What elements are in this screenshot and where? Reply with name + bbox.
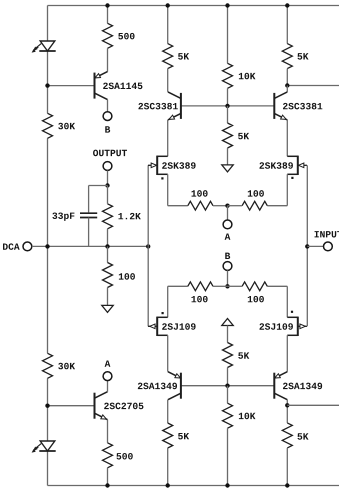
junction DCA/1.2K bottom — [105, 244, 109, 248]
label 2SC3381 left — [138, 103, 177, 110]
label INPUT — [315, 231, 339, 237]
terminal OUTPUT — [103, 162, 112, 171]
resistor R 5K (middle upper) — [223, 123, 233, 148]
wire output 100 to arrow — [107, 288, 109, 306]
transistor Q3b 2SA1349 (right) PNP — [274, 372, 287, 400]
LED D2 — [32, 441, 56, 452]
junction top rail 10K — [225, 3, 229, 7]
resistor R 100 (lower left) — [188, 282, 213, 291]
label 5K middle-lower — [238, 352, 249, 358]
wire 100 UR lead — [267, 205, 287, 207]
label 5K upper-left — [178, 53, 189, 59]
wire 100 UL to node A — [213, 205, 228, 207]
transistor Q1 2SA1145 PNP — [95, 72, 108, 100]
wire cap bottom — [88, 218, 90, 247]
junction collector node (bottom right) — [285, 403, 289, 407]
junction left rail / Q4 base — [45, 404, 49, 408]
capacitor C1 33pF — [80, 213, 97, 217]
jfet J2 2SK389 (right) — [287, 156, 307, 175]
wire node A to terminal — [227, 206, 229, 220]
wire node to right edge (bottom) — [287, 404, 339, 406]
label 2SA1349 right — [283, 383, 322, 390]
wire 100 LL to node B — [213, 285, 228, 287]
jfet J4 2SJ109 (right) — [287, 317, 307, 336]
label DCA — [3, 243, 20, 250]
junction DCA/left rail — [45, 244, 49, 248]
LED D1 — [32, 41, 56, 52]
resistor R 10K (lower) — [223, 403, 233, 428]
wire mid 5K to base line — [227, 368, 229, 386]
terminal INPUT — [324, 242, 333, 251]
wire 5K UR to node — [286, 69, 288, 86]
power arrow up (mid lower) — [222, 319, 233, 326]
wire mid 5K upper lead — [227, 106, 229, 123]
label 5K lower-right — [297, 433, 308, 439]
wire OUTPUT to node — [107, 170, 109, 185]
power arrow down (mid upper) — [222, 165, 233, 172]
resistor R 5K (upper right) — [282, 44, 292, 69]
wire 100 LR lead — [267, 285, 287, 287]
wire Q3L collector down — [167, 400, 169, 423]
resistor R 10K (upper) — [223, 63, 233, 88]
transistor Q2 2SC3381 (left) NPN — [168, 92, 181, 120]
wire 100 UR to node A — [228, 205, 243, 207]
transistor Q3 2SA1349 (left) PNP — [168, 372, 181, 400]
wire mid 5K lower lead — [227, 326, 229, 343]
wire J1 source down — [167, 174, 169, 205]
label A mid — [225, 233, 231, 239]
wire input stub — [307, 245, 323, 247]
marker dot J4 — [291, 311, 293, 313]
junction top rail 5K right — [285, 3, 289, 7]
label 2SK389 left — [162, 162, 195, 169]
wire Q3R collector down — [286, 400, 288, 423]
label 5K upper-right — [297, 53, 308, 59]
resistor R 100 (output) — [103, 263, 113, 288]
junction bottom rail 5K right — [285, 483, 289, 487]
label 2SJ109 left — [162, 323, 195, 330]
marker dot J3 — [162, 312, 164, 314]
junction input node — [305, 244, 309, 248]
junction bottom rail 500 — [105, 483, 109, 487]
wire Q4 base from left rail — [48, 405, 95, 407]
junction left rail / Q1 base — [45, 83, 49, 87]
resistor R 5K (middle lower) — [223, 343, 233, 368]
marker dot J2 — [291, 177, 293, 179]
label 1.2K — [118, 213, 140, 219]
label 2SK389 right — [260, 162, 293, 169]
label 2SJ109 right — [260, 323, 293, 330]
wire Q2L emitter down to J1 drain — [167, 120, 169, 156]
label OUTPUT — [93, 150, 127, 157]
junction DCA/gate line — [146, 244, 150, 248]
wire Q4 collector to terminal A — [107, 380, 109, 391]
label 10K upper — [239, 73, 256, 80]
wire bottom supply rail — [48, 485, 339, 487]
label 5K middle-upper — [238, 133, 249, 139]
label 2SA1349 left — [138, 383, 177, 390]
wire J4 source up — [286, 286, 288, 317]
wire Q1 base from left rail — [48, 85, 95, 87]
label 2SC2705 — [104, 403, 143, 410]
label 100 output — [119, 273, 135, 280]
wire top supply rail — [48, 5, 339, 7]
wire 5K UR top lead — [286, 6, 288, 44]
wire 5K LL to rail — [167, 448, 169, 486]
wire 100 UL lead — [168, 205, 188, 207]
resistor R 5K (upper left) — [163, 44, 173, 69]
wire left gate line — [147, 165, 149, 326]
wire Q3 base line — [181, 385, 274, 387]
junction node B — [225, 284, 229, 288]
transistor Q4 2SC2705 NPN — [95, 392, 108, 420]
resistor R 5K (lower left) — [163, 423, 173, 448]
junction bottom rail 10K — [225, 483, 229, 487]
terminal DCA — [23, 242, 32, 251]
resistor R 30K (lower) — [43, 353, 53, 378]
terminal B (top) — [103, 112, 112, 121]
terminal A (bottom) — [103, 372, 112, 381]
jfet J1 2SK389 (left) — [148, 156, 168, 175]
wire output 100 lead — [107, 246, 109, 262]
junction top rail 500 — [105, 3, 109, 7]
label 5K lower-left — [178, 433, 189, 439]
resistor R 500 (top) — [103, 23, 113, 48]
wire mid 5K to arrow — [227, 148, 229, 165]
terminal B (mid) — [223, 262, 232, 271]
label 2SA1145 — [103, 83, 142, 90]
wire 500 top lead — [107, 6, 109, 24]
wire 10K top lead — [227, 6, 229, 64]
label 100 lower-right — [248, 296, 264, 303]
resistor R 100 (lower right) — [242, 282, 267, 291]
power arrow down (output) — [102, 305, 113, 312]
wire Q1 collector to terminal B — [107, 100, 109, 112]
marker dot J1 — [161, 177, 163, 179]
wire 1.2K leads — [107, 186, 109, 247]
label 30K lower — [58, 363, 75, 370]
resistor R 100 (upper left) — [188, 201, 213, 210]
label 500 top — [118, 33, 134, 40]
wire 5K LR to rail — [286, 448, 288, 486]
wire Q2R emitter down to J2 drain — [286, 120, 288, 156]
wire DCA line — [32, 245, 148, 247]
label 100 upper-left — [192, 190, 208, 197]
junction node A — [225, 204, 229, 208]
wire 10K lower to rail — [227, 428, 229, 485]
resistor R 5K (lower right) — [282, 423, 292, 448]
wire terminal B to node — [227, 270, 229, 286]
wire 5K UL to Q2L collector — [167, 69, 169, 92]
resistor R 100 (upper right) — [242, 201, 267, 210]
transistor Q2b 2SC3381 (right) NPN — [274, 92, 287, 120]
wire 500 to Q1 emitter — [107, 48, 109, 71]
resistor R 1.2K — [103, 204, 113, 229]
jfet J3 2SJ109 (left) — [148, 317, 168, 336]
wire 500 bottom to rail — [107, 468, 109, 486]
wire left rail upper segment — [47, 6, 49, 486]
terminal A (mid) — [223, 220, 232, 229]
junction base line / 10K lower — [225, 384, 229, 388]
wire Q4 emitter to 500 — [107, 420, 109, 443]
wire 10K lower lead — [227, 386, 229, 404]
label 10K lower — [239, 413, 256, 420]
wire 100 LR to node B — [228, 285, 243, 287]
wire 5K UL top lead — [167, 6, 169, 44]
label 100 lower-left — [192, 296, 208, 303]
wire J2 source down — [286, 174, 288, 205]
wire 100 LL lead — [168, 285, 188, 287]
label 33pF — [52, 212, 74, 220]
wire 10K to base line — [227, 88, 229, 106]
resistor R 30K (upper) — [43, 113, 53, 138]
label A bottom — [105, 360, 111, 366]
label 30K upper — [58, 123, 75, 130]
wire J4 drain down — [286, 335, 288, 371]
junction top rail 5K left — [166, 3, 170, 7]
junction 5K/collector node (top right) — [285, 83, 289, 87]
wire Q2R collector stub — [286, 86, 288, 92]
wire node to right edge (top) — [287, 85, 339, 87]
wire output node to cap — [89, 186, 108, 213]
wire J3 source up — [167, 286, 169, 317]
junction output node — [105, 183, 109, 187]
resistor R 500 (bottom) — [103, 443, 113, 468]
label 2SC3381 right — [283, 103, 322, 110]
wire J3 drain down — [167, 335, 169, 371]
junction base line / 10K — [225, 104, 229, 108]
label B mid — [225, 253, 230, 259]
junction bottom rail 5K left — [166, 483, 170, 487]
label B top — [105, 126, 110, 132]
label 500 bottom — [116, 453, 132, 460]
wire right gate line — [306, 165, 308, 326]
label 100 upper-right — [248, 190, 264, 197]
wire Q2 base line — [181, 105, 274, 107]
